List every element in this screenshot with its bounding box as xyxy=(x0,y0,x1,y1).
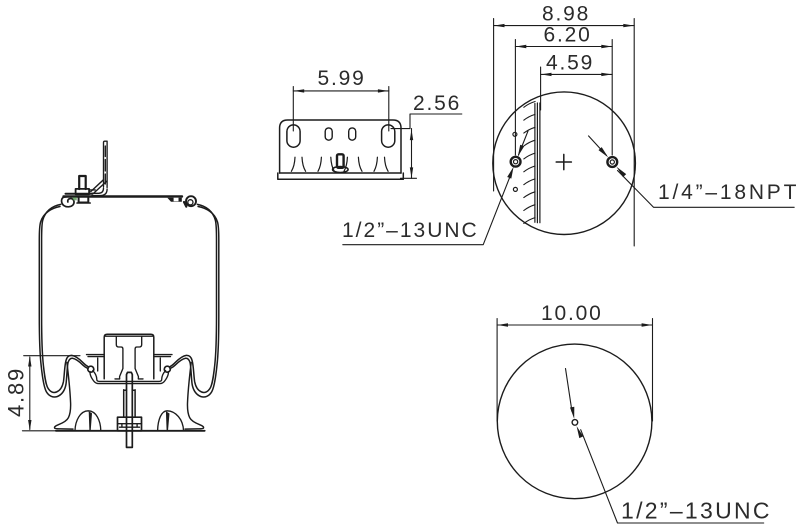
base line xyxy=(56,430,205,432)
dimension 2.56 bottom arrow xyxy=(410,167,413,178)
bellows right bead ring xyxy=(164,366,170,372)
right arch wedge xyxy=(166,411,170,430)
dimension 8.98 extensions xyxy=(494,19,635,247)
label leader NPT xyxy=(618,171,795,208)
dimension 8.98 line xyxy=(494,25,635,27)
nut outer xyxy=(118,417,142,431)
right clip leg xyxy=(184,202,186,207)
right clip white notch xyxy=(174,198,179,202)
dimension 4.89 top arrow xyxy=(28,356,31,367)
dimension 8.98 arrows xyxy=(494,24,634,27)
stud nut upper xyxy=(76,189,90,194)
bottom circle xyxy=(497,344,652,499)
green jpeg artifact xyxy=(73,197,77,200)
right hole outer ring xyxy=(607,157,617,167)
dimension 10.00 line xyxy=(497,324,652,326)
dimension 4.59 line xyxy=(541,73,613,75)
left hole inner xyxy=(514,160,518,164)
dimension 5.99 line xyxy=(293,90,389,92)
bracket stud washer xyxy=(333,167,349,173)
stud lower flange xyxy=(77,202,90,204)
stud nut lower xyxy=(79,198,89,203)
right clip block xyxy=(167,198,182,202)
left foot arch xyxy=(75,411,101,431)
bracket bottom strip xyxy=(278,173,404,179)
dimension 5.99 left extension xyxy=(292,87,294,132)
bracket left big slot xyxy=(287,125,300,147)
bottom leader arrow up xyxy=(577,426,584,438)
dimension 4.89 top extension xyxy=(24,355,80,357)
bottom leader from above xyxy=(566,369,573,412)
svg-text:6.20: 6.20 xyxy=(544,24,592,47)
left clamp plate above top plate xyxy=(66,193,93,195)
dimension 6.20 arrows xyxy=(516,45,612,48)
center mark xyxy=(556,154,571,169)
dimension 4.89 bottom arrow xyxy=(28,420,31,431)
bracket small slot B xyxy=(349,128,356,140)
piston skirt left xyxy=(55,363,73,430)
bumper inner recess xyxy=(116,336,141,379)
dimension 2.56 top arrow xyxy=(410,130,413,141)
bracket right big slot xyxy=(382,125,395,147)
small hole above xyxy=(513,132,517,136)
left arch wedge xyxy=(89,411,92,430)
svg-text:10.00: 10.00 xyxy=(541,302,603,325)
L-bracket slot line xyxy=(104,146,106,184)
serration ticks xyxy=(291,157,388,171)
bellows right inner wall xyxy=(170,204,216,392)
svg-text:5.99: 5.99 xyxy=(318,67,366,90)
left curl xyxy=(62,197,74,207)
right curl outer xyxy=(186,196,196,206)
top plate xyxy=(64,195,183,197)
bracket fold line xyxy=(280,172,401,174)
bumper base feet xyxy=(115,378,143,380)
nut inner lines xyxy=(118,424,142,428)
top circle xyxy=(493,92,636,235)
small hole below xyxy=(513,187,517,191)
L-bracket gusset xyxy=(91,180,107,193)
piston top flange right xyxy=(154,355,172,371)
bracket edge strip xyxy=(535,103,540,223)
dimension 4.89 line xyxy=(29,357,31,430)
L-bracket foot top edge xyxy=(90,189,95,191)
bumper top inner line xyxy=(106,335,153,337)
svg-text:4.89: 4.89 xyxy=(3,367,28,417)
bellows left bead ring xyxy=(88,366,94,372)
leader from above to right hole xyxy=(589,136,607,156)
dimension 2.56 line xyxy=(411,129,413,179)
piston top flange left xyxy=(87,355,105,371)
right curl inner xyxy=(188,200,193,205)
svg-text:1/2”–13UNC: 1/2”–13UNC xyxy=(342,219,479,242)
svg-text:1/2”–13UNC: 1/2”–13UNC xyxy=(621,498,772,524)
bellows inner wall xyxy=(42,204,88,392)
svg-text:4.59: 4.59 xyxy=(546,52,594,75)
bracket small slot A xyxy=(325,128,332,140)
svg-text:8.98: 8.98 xyxy=(542,3,590,26)
dimension 10.00 arrows xyxy=(497,323,652,326)
bottom center hole xyxy=(572,420,578,426)
strip hatch ticks xyxy=(524,102,535,224)
dimension 2.56 leader xyxy=(391,114,462,129)
L-bracket vertical xyxy=(104,141,108,187)
leader arrow above left hole xyxy=(518,145,524,157)
bottom label leader xyxy=(581,430,764,523)
leader arrow to left hole from below xyxy=(507,167,513,179)
dimension 4.59 arrows xyxy=(541,73,612,76)
bellows outer wall xyxy=(39,207,88,398)
bracket stud front xyxy=(337,154,344,168)
svg-text:2.56: 2.56 xyxy=(413,92,461,115)
left hole outer ring xyxy=(511,157,521,167)
piston skirt right xyxy=(185,363,204,430)
bottom leader arrow down xyxy=(570,407,574,419)
leader arrow above right hole xyxy=(599,147,609,157)
bumper block xyxy=(104,334,154,379)
bellows cup floor lower line xyxy=(90,372,168,384)
dimension 5.99 right extension xyxy=(388,87,390,132)
right foot arch xyxy=(158,411,184,431)
stud xyxy=(79,176,86,189)
dimension 4.89 bottom extension xyxy=(22,430,56,432)
dimension 6.20 line xyxy=(515,46,612,48)
dimension 5.99 left arrow xyxy=(294,89,305,92)
leader arrow to right hole from below xyxy=(617,167,627,177)
bellows cup left xyxy=(93,371,166,382)
bolt sleeve xyxy=(124,390,135,417)
dimension 2.56 bottom extension xyxy=(401,177,417,179)
L-bracket corner foot xyxy=(92,188,107,196)
dimension 6.20 extensions xyxy=(515,40,612,156)
center bolt xyxy=(127,372,133,447)
dimension 4.59 extension xyxy=(540,67,542,110)
label underline and leader top xyxy=(343,172,512,245)
dimension 5.99 right arrow xyxy=(378,89,389,92)
bracket plate xyxy=(280,120,401,173)
svg-text:1/4”–18NPT: 1/4”–18NPT xyxy=(658,181,799,204)
bellows right wall xyxy=(170,207,219,398)
leader from above to left hole xyxy=(519,131,529,155)
dimension 10.00 extensions xyxy=(497,319,652,422)
right hole inner xyxy=(610,160,614,164)
